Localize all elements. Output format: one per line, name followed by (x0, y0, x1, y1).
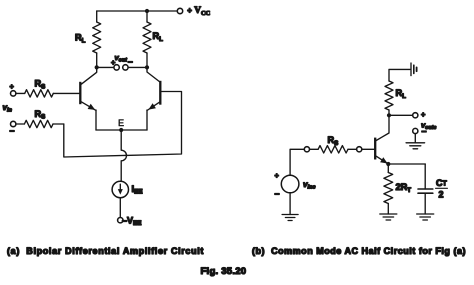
svg-text:–: – (275, 188, 280, 198)
ground below voutc (406, 143, 425, 149)
transistor Q2 collector (147, 67, 159, 81)
svg-text:vinc: vinc (303, 180, 316, 190)
wire emitter E line (96, 129, 147, 131)
terminal vout + (114, 65, 119, 70)
transistor Q1 collector (81, 67, 96, 84)
resistor R_S b (310, 146, 357, 153)
svg-text:–: – (128, 57, 133, 67)
terminal vin - (11, 121, 16, 126)
terminal vout - (123, 65, 128, 70)
capacitor CT/2 (418, 164, 433, 214)
wire Q2 emitter down (146, 110, 148, 130)
svg-text:E: E (118, 118, 124, 128)
svg-text:2: 2 (439, 190, 444, 200)
terminal RS-b left (304, 147, 309, 152)
current source I_EE (112, 181, 128, 197)
svg-text:+: + (275, 171, 280, 180)
svg-text:vin: vin (3, 103, 13, 113)
transistor Q2 emitter arrow (148, 103, 156, 109)
transistor Q2 emitter (147, 102, 159, 110)
wire RL-b to AC ground (389, 69, 410, 81)
wire IEE to -VEE (119, 198, 121, 218)
svg-text:RS: RS (328, 135, 339, 147)
svg-text:(b) Common Mode AC Half Circu: (b) Common Mode AC Half Circuit for Fig … (252, 246, 466, 256)
svg-text:+ VCC: + VCC (187, 6, 210, 17)
junction dot right collector (145, 65, 149, 69)
transistor Q1 emitter arrow (88, 104, 96, 110)
svg-text:RL: RL (75, 33, 86, 45)
svg-text:–: – (10, 126, 15, 136)
terminal voutc + (413, 113, 418, 118)
label CT/2 (436, 178, 448, 200)
svg-text:RL: RL (153, 31, 164, 43)
junction dot collector b (387, 113, 391, 117)
svg-text:RS: RS (35, 109, 46, 121)
svg-text:+: + (111, 58, 116, 67)
wire vinc to ground (289, 193, 291, 215)
resistor R_L right (143, 11, 151, 67)
terminal voutc - (413, 128, 418, 133)
resistor R_S bottom (16, 120, 64, 127)
wire RS bottom to Q2 base (64, 92, 182, 158)
transistor Q2 base bar (159, 81, 161, 105)
svg-text:RL: RL (396, 88, 407, 100)
terminal +V_CC (177, 8, 182, 13)
svg-text:2RT: 2RT (396, 182, 412, 194)
svg-text:+: + (421, 110, 426, 119)
AC ground symbol top (411, 63, 417, 76)
svg-text:–VEE: –VEE (122, 216, 141, 228)
svg-text:(a) Bipolar Differential Ampl: (a) Bipolar Differential Amplifier Circu… (7, 246, 204, 256)
svg-text:CT: CT (436, 178, 448, 188)
wire voutc to ground (414, 134, 416, 143)
wire vout- to collector (128, 66, 147, 68)
transistor Q3 emitter (376, 156, 388, 164)
junction dot emitter b (386, 162, 390, 166)
ground below vinc (282, 215, 298, 221)
transistor Q3 collector (376, 115, 389, 140)
wire Q1 emitter down (95, 110, 97, 130)
terminal RS-b right (357, 147, 362, 152)
wire V_CC rail (97, 10, 178, 12)
source v_inc (281, 175, 299, 193)
transistor Q1 emitter (81, 102, 96, 111)
junction dot left collector (95, 65, 99, 69)
junction dot on V_CC rail (145, 9, 149, 13)
svg-text:IEE: IEE (132, 184, 143, 196)
svg-text:RS: RS (35, 79, 46, 91)
transistor Q3 emitter arrow (380, 157, 388, 163)
node E dot (119, 128, 123, 132)
transistor Q1 base bar (79, 82, 81, 104)
ground below capacitor (417, 214, 434, 220)
transistor Q3 base bar (374, 138, 376, 160)
ground below 2R_T (380, 214, 397, 220)
resistor R_L left (93, 11, 101, 67)
wire Q3 base (362, 148, 374, 150)
svg-text:+: + (10, 82, 15, 91)
resistor R_L b (385, 81, 393, 115)
terminal vin + (11, 91, 16, 96)
wire collector to voutc (389, 114, 413, 116)
resistor 2R_T (384, 164, 393, 214)
resistor R_S top (16, 90, 79, 97)
wire emitter to capacitor (388, 163, 425, 165)
svg-text:Fig. 35.20: Fig. 35.20 (201, 266, 247, 277)
svg-text:–: – (422, 126, 427, 136)
terminal -V_EE (118, 218, 123, 223)
wire collector to vout+ (97, 66, 114, 68)
wire to vinc source (290, 149, 304, 175)
wire E down with hop (121, 130, 126, 181)
svg-text:vout: vout (115, 53, 128, 63)
